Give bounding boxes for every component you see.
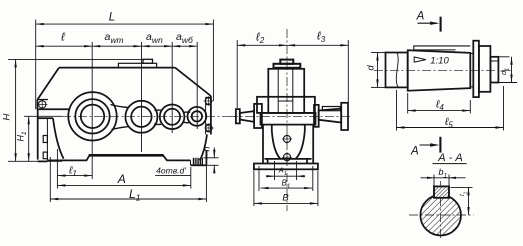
svg-text:h: h — [202, 146, 212, 151]
dimension l3 — [287, 44, 348, 46]
dimension h of base flange — [204, 157, 219, 159]
dimension B — [254, 202, 318, 204]
centerline boss4 / extension — [196, 42, 198, 129]
dimension a_wn — [142, 45, 173, 47]
eye-bolt hole — [39, 101, 46, 108]
extension line axis for H1 — [24, 115, 62, 117]
flange bolt lower — [206, 125, 212, 131]
bearing bore 2 — [131, 107, 151, 127]
side view vertical centerline — [286, 29, 288, 211]
output shaft key slot plate — [322, 107, 340, 111]
left foot rib curve — [53, 118, 64, 159]
side gusset right curve — [296, 131, 305, 159]
output shaft taper — [319, 109, 342, 123]
extension line foot hole left — [56, 149, 58, 189]
bearing boss 4 outer — [188, 107, 207, 126]
svg-text:B: B — [282, 192, 289, 203]
dimension l — [36, 45, 92, 47]
wall bottom ledge — [265, 158, 312, 160]
right foot bottom — [191, 164, 207, 166]
svg-text:1:10: 1:10 — [430, 56, 449, 67]
housing web between boss1 and boss2 — [111, 105, 129, 108]
wall footer verticals — [267, 159, 269, 164]
bearing bore 3 — [164, 109, 180, 125]
extension line base left — [49, 157, 51, 202]
dimension l2 — [237, 44, 287, 46]
shaft left section d — [386, 53, 408, 88]
stub step line — [490, 60, 498, 62]
breather cap top step — [280, 60, 293, 64]
dimension H — [15, 59, 17, 161]
base plate side view — [254, 164, 318, 170]
svg-text:d: d — [365, 65, 376, 71]
extension line left L — [35, 20, 37, 110]
left wall lug top — [43, 136, 47, 143]
shaft threaded stub — [490, 57, 498, 83]
key slot line on taper — [414, 46, 471, 50]
input shaft bearing cap — [254, 104, 262, 128]
left wall lug bottom — [43, 152, 47, 159]
side gusset left stub — [271, 125, 273, 131]
svg-text:A: A — [117, 172, 126, 186]
housing web between boss2 and boss3 — [155, 109, 162, 111]
dimension B1 — [261, 187, 313, 189]
upper housing breast — [257, 97, 315, 113]
taper symbol triangle — [414, 57, 426, 62]
dimension a_wm — [92, 45, 141, 47]
bearing bore 4 — [192, 111, 202, 121]
side gusset right stub — [304, 125, 306, 131]
recess thick line — [89, 154, 164, 157]
lower housing left wall — [37, 109, 39, 159]
svg-text:A - A: A - A — [437, 152, 462, 164]
section circle centerlines — [409, 214, 474, 216]
dimension A1 — [275, 175, 297, 177]
tower inner lines — [277, 69, 279, 113]
split flange band side view — [261, 113, 316, 125]
H extension line from highest point — [8, 58, 143, 60]
eye-bolt lug left — [37, 99, 48, 101]
bearing boss 2 outer — [125, 101, 157, 133]
dimension l5 — [397, 127, 504, 129]
oil drain plug — [283, 154, 290, 161]
bearing bore 1 — [81, 105, 104, 128]
right foot rib curve — [200, 135, 207, 161]
dimension l1 bottom — [57, 175, 92, 177]
ground extension line under H H1 — [8, 160, 62, 162]
side gusset left curve — [272, 131, 281, 159]
bearing boss 1 middle ring — [75, 99, 109, 133]
svg-text:H: H — [2, 113, 13, 120]
base bottom with recess — [47, 155, 190, 160]
shaft neck lines — [470, 53, 473, 55]
input shaft tower — [268, 69, 304, 113]
input shaft end plate — [236, 109, 240, 123]
dimension a_wb — [172, 45, 197, 47]
shaft axis centerline — [374, 69, 511, 71]
dimension L1 bottom — [50, 198, 206, 200]
input shaft taper — [240, 111, 254, 122]
front view: reducer housing outline — [59, 67, 175, 69]
lower housing walls side view — [262, 125, 264, 164]
shaft washer disc — [473, 41, 479, 97]
shaft break wavy line — [396, 53, 398, 87]
shaft main taper body — [408, 50, 471, 90]
housing web between boss3 and boss4 — [183, 111, 190, 113]
dimension l4 — [408, 110, 471, 112]
key cross-section square — [434, 186, 449, 197]
breather cap bottom step — [274, 64, 301, 68]
dimension A bottom — [57, 184, 190, 186]
dimension t1 keyway depth — [451, 186, 473, 188]
extension line foot hole right — [190, 167, 192, 189]
right foot edge — [205, 150, 207, 160]
svg-text:L: L — [109, 12, 115, 24]
svg-text:4отв.d′: 4отв.d′ — [156, 165, 186, 175]
cover split flange left line — [37, 108, 70, 110]
left foot bottom — [38, 160, 48, 162]
breather knob on hatch — [143, 59, 153, 63]
svg-text:A: A — [410, 146, 419, 158]
shaft nut block — [479, 46, 491, 92]
inspection hatch plate on cover — [118, 63, 156, 67]
dimension H1 — [28, 116, 30, 161]
extension line base right — [205, 166, 207, 202]
bearing boss 1 outer — [68, 92, 116, 140]
output shaft end plate — [341, 103, 348, 130]
extension lines B B1 A1 — [253, 171, 255, 207]
side view axis centerline — [229, 115, 352, 117]
svg-text:A: A — [416, 11, 425, 23]
dimension L — [36, 23, 214, 25]
flange bolt upper — [205, 98, 211, 104]
centerline boss3 / extension — [171, 42, 173, 133]
left wall inner line — [46, 118, 48, 160]
left ledge under flange — [38, 117, 53, 119]
dimension d1 — [498, 56, 509, 58]
oil level plug — [283, 135, 290, 142]
output shaft bearing cap — [314, 105, 319, 127]
centerline boss2 / extension — [141, 42, 143, 152]
main axis centerline — [62, 115, 237, 117]
centerline boss1 / extension — [91, 42, 93, 179]
dimension d — [377, 53, 379, 88]
right foot anchor holes hatched — [193, 158, 202, 165]
bearing boss 3 outer — [160, 105, 185, 130]
right flange strip with bolts — [210, 96, 212, 135]
svg-text:ℓ: ℓ — [60, 32, 65, 44]
extension line right L — [212, 20, 214, 102]
